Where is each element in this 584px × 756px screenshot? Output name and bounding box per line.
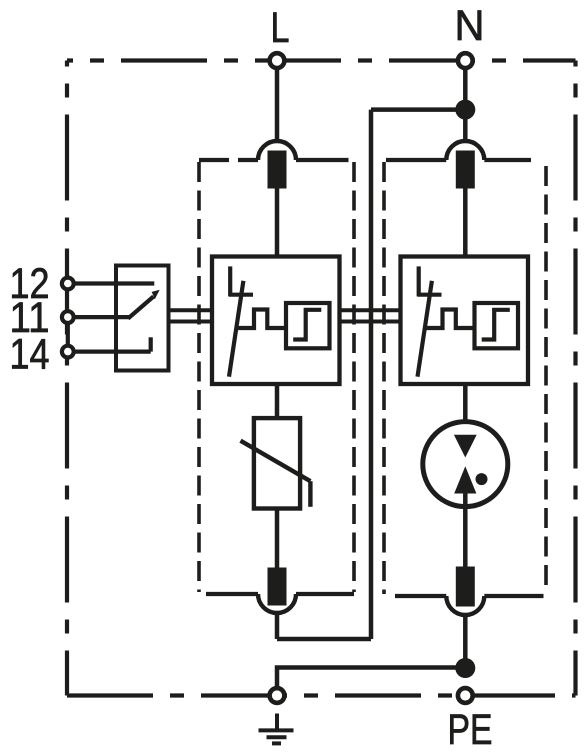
- wire terminal 14 to K1: [68, 350, 151, 354]
- trigger unit U2 (box): [401, 257, 529, 385]
- border solid segment between terminals 11 and 14: [66, 317, 70, 352]
- terminal PE: [458, 688, 473, 703]
- thermal disconnector F4 (N, bottom): [446, 567, 484, 616]
- wire terminal 11 to K1: [68, 315, 129, 319]
- terminal 14: [62, 346, 74, 358]
- wire L drop (L terminal to disconnector F1): [275, 70, 280, 141]
- svg-text:N: N: [455, 3, 485, 50]
- terminal 12: [62, 278, 74, 290]
- K1 fixed contact stub (14): [149, 337, 153, 351]
- module box 2 (dashed sides, solid top/bottom rails): [384, 160, 546, 596]
- terminal L: [270, 53, 285, 68]
- wire top link (junction N to riser): [371, 107, 465, 112]
- wire F2 to trigger unit U2: [463, 188, 468, 257]
- wire F1 to trigger unit U1: [275, 188, 280, 257]
- svg-text:PE: PE: [448, 707, 493, 754]
- wire bottom-left link (riser to lower disconnector F3): [277, 637, 371, 642]
- junction node PE-bottom: [455, 658, 475, 678]
- wire U1 to varistor: [275, 384, 280, 418]
- wire F4 dome to junction PE: [463, 616, 468, 668]
- K1 moving contact blade with arrow: [128, 290, 160, 319]
- wire spark gap to F4: [463, 494, 468, 569]
- thermal disconnector F1 (L, top): [258, 141, 296, 189]
- svg-text:L: L: [271, 5, 290, 52]
- terminal N: [458, 53, 473, 68]
- junction node N-top: [455, 100, 475, 120]
- wire terminal 12 to K1: [68, 281, 154, 285]
- wire N drop (N terminal to junction): [463, 70, 468, 110]
- module box 1 (dashed sides, solid top/bottom rails): [199, 160, 354, 594]
- mechanical linkage (switch box to U1): [169, 310, 213, 321]
- wire riser (vertical between modules): [369, 110, 374, 639]
- wire varistor to F3: [275, 509, 280, 568]
- wire F3 dome to bottom link: [275, 614, 280, 639]
- ground symbol: [259, 714, 294, 744]
- terminal 11: [62, 311, 74, 323]
- mechanical linkage (U1 to U2): [340, 310, 401, 321]
- enclosure border (dash-dot): [67, 61, 576, 696]
- wire ground link (junction to ground terminal): [277, 668, 465, 688]
- thermal disconnector F2 (N, top): [446, 141, 484, 189]
- terminal ground: [270, 688, 285, 703]
- trigger unit U2 internals: [418, 266, 519, 376]
- thermal disconnector F3 (L, bottom): [258, 568, 296, 614]
- wire U2 to spark gap: [463, 384, 468, 436]
- spark gap FS (gas discharge tube): [423, 422, 508, 507]
- svg-text:14: 14: [10, 331, 50, 378]
- varistor RV1: [241, 418, 311, 508]
- remote signalling switch K1 (box): [116, 266, 169, 371]
- wire junction to disconnector F2: [463, 110, 468, 141]
- trigger unit U1 internals: [229, 266, 330, 376]
- trigger unit U1 (box): [212, 257, 340, 385]
